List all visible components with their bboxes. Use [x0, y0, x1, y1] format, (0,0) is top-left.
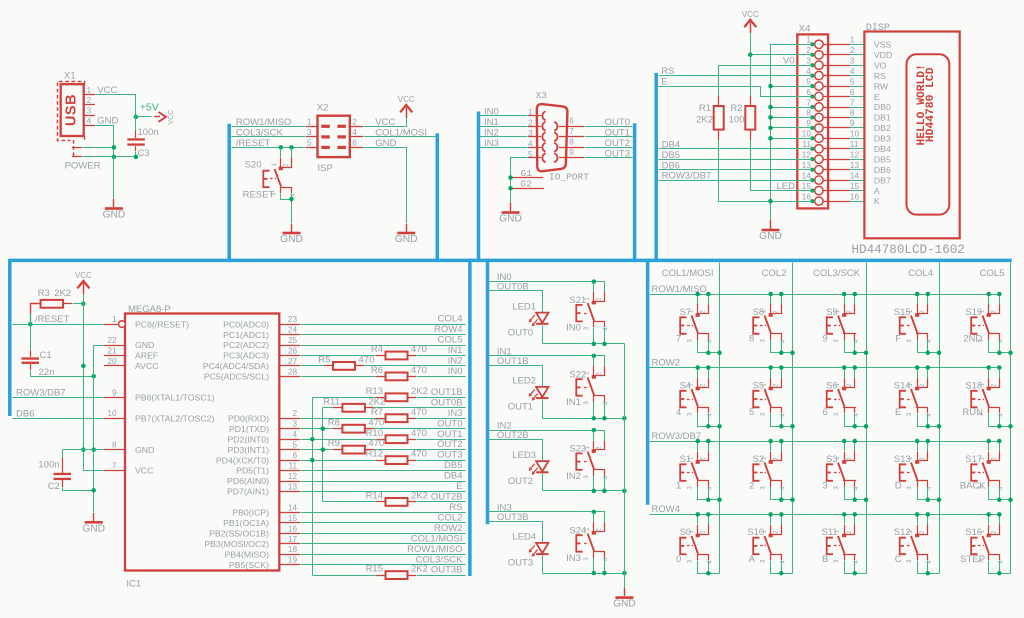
pin 1 IC1: [104, 315, 189, 329]
svg-text:C: C: [895, 554, 902, 565]
svg-text:470: 470: [368, 417, 384, 428]
svg-text:5: 5: [806, 77, 811, 86]
pushbutton S15 key F: [894, 292, 941, 355]
svg-text:6: 6: [352, 139, 357, 148]
svg-text:OUT1B: OUT1B: [431, 387, 463, 398]
svg-text:9: 9: [806, 119, 811, 128]
LED LED3: [529, 461, 549, 475]
LED LED2: [529, 387, 549, 401]
svg-text:STEP: STEP: [960, 554, 985, 565]
svg-text:DB3: DB3: [874, 134, 891, 144]
svg-text:RESET: RESET: [243, 189, 275, 200]
wire OUT2B: [489, 440, 543, 462]
wire COL1/MOSI: [364, 136, 436, 138]
svg-text:PB4(MISO): PB4(MISO): [225, 549, 270, 559]
svg-text:PB5(SCK): PB5(SCK): [229, 560, 269, 570]
svg-text:ROW1/MISO: ROW1/MISO: [407, 544, 462, 555]
junction led1 col: [622, 416, 627, 421]
wire net COL2 (row pin): [223, 512, 465, 528]
svg-text:IN3: IN3: [566, 553, 581, 564]
svg-text:4: 4: [292, 430, 297, 439]
wire LED1 cathode: [542, 326, 544, 344]
svg-text:S20: S20: [245, 159, 262, 170]
svg-text:COL5: COL5: [438, 335, 463, 346]
wire S23 bottom: [543, 490, 625, 492]
svg-text:15: 15: [850, 182, 860, 191]
junction IN2 pin1: [592, 428, 597, 433]
svg-text:IN0: IN0: [566, 323, 581, 334]
frame divider IO_PORT left: [477, 112, 481, 263]
junction G1: [508, 175, 513, 180]
svg-text:6: 6: [850, 88, 855, 97]
svg-text:PC2(ADC2): PC2(ADC2): [223, 340, 269, 350]
wire +5V to C3: [135, 117, 137, 132]
connector X2 ISP body: [318, 116, 350, 157]
svg-text:6: 6: [823, 407, 828, 418]
svg-text:R2: R2: [730, 103, 742, 114]
pushbutton S19 key 2ND: [963, 292, 1013, 355]
svg-text:1: 1: [87, 86, 92, 95]
svg-text:R11: R11: [323, 396, 340, 407]
wire net ROW4 (row pin): [223, 324, 465, 340]
wire S22 bottom: [543, 418, 625, 420]
svg-text:IN1: IN1: [484, 117, 499, 128]
svg-text:S24: S24: [569, 525, 586, 536]
svg-text:R10: R10: [366, 428, 383, 439]
junction led3 col: [622, 571, 627, 576]
frame border MCU right: [468, 259, 472, 576]
svg-text:VCC: VCC: [398, 95, 415, 104]
svg-text:PC1(ADC1): PC1(ADC1): [223, 330, 269, 340]
wire VCC from X1: [96, 95, 136, 117]
pushbutton S1 key 1: [676, 439, 722, 502]
svg-text:R1: R1: [699, 103, 711, 114]
svg-text:5: 5: [292, 441, 297, 450]
capacitor C1 22n: [22, 325, 94, 379]
svg-text:ROW1/MISO: ROW1/MISO: [236, 117, 291, 128]
svg-text:2K2: 2K2: [411, 386, 428, 397]
svg-text:11: 11: [802, 140, 811, 149]
wire OUT3 ioport: [585, 157, 633, 159]
wire VCC X2: [364, 116, 407, 127]
svg-text:/RESET: /RESET: [236, 138, 271, 149]
wire VCC rail mcu: [84, 294, 105, 471]
svg-text:S1: S1: [680, 454, 692, 465]
wire net COL1/MOSI (row pin): [204, 533, 465, 549]
junction K gnd: [768, 199, 773, 204]
svg-text:S2: S2: [753, 454, 765, 465]
svg-text:S0: S0: [680, 527, 692, 538]
connector X1 USB body: [61, 84, 84, 136]
svg-text:7: 7: [112, 462, 117, 471]
svg-text:COL2: COL2: [762, 268, 787, 279]
pin stubs X2 right: [350, 118, 363, 148]
svg-text:5: 5: [850, 77, 855, 86]
junction C1 gnd: [91, 374, 96, 379]
LED LED1: [529, 313, 549, 327]
svg-text:COL1/MOSI: COL1/MOSI: [375, 127, 427, 138]
svg-text:S3: S3: [826, 454, 838, 465]
svg-text:PB7(XTAL2/TOSC2): PB7(XTAL2/TOSC2): [135, 413, 214, 423]
pin numbers X3 left: [528, 108, 533, 159]
svg-text:AREF: AREF: [135, 351, 158, 361]
wire DB2 tie: [771, 127, 813, 129]
pushbutton S10 key A: [747, 512, 792, 575]
resistor R5 470 (row pin): [203, 355, 466, 372]
wire OUT1B: [489, 366, 543, 387]
wire VCC to VDD: [751, 33, 813, 55]
ground power: [113, 199, 115, 207]
wire OUT0B/OUT2B column: [322, 408, 324, 502]
svg-text:DB5: DB5: [444, 460, 462, 471]
svg-text:2: 2: [352, 118, 357, 127]
frame border LED left: [486, 259, 490, 525]
svg-text:OUT3: OUT3: [437, 450, 462, 461]
junction GND node: [112, 155, 117, 160]
wire row8 gnd: [63, 449, 105, 451]
wire net COL4 (row pin): [223, 314, 465, 330]
pushbutton S21: [576, 282, 609, 331]
svg-text:S22: S22: [569, 369, 586, 380]
wire ROW3/DB7 disp: [659, 180, 813, 182]
wire OUT3B: [489, 522, 543, 543]
frame divider power/ISP: [227, 124, 231, 262]
resistor R2 100: [729, 96, 756, 140]
svg-text:GND: GND: [135, 445, 154, 455]
svg-text:1: 1: [307, 118, 312, 127]
svg-text:ROW4: ROW4: [652, 504, 681, 515]
pins X4: [815, 40, 850, 205]
svg-text:6: 6: [569, 116, 574, 125]
svg-text:13: 13: [850, 161, 860, 170]
svg-text:100: 100: [729, 114, 745, 125]
wire VSS gnd: [771, 45, 813, 221]
wire DB5 disp: [659, 159, 813, 161]
junction IN3 pin1: [592, 510, 597, 515]
svg-text:R3: R3: [38, 288, 50, 299]
wire to power GND: [113, 157, 115, 200]
svg-text:22n: 22n: [39, 367, 55, 378]
pushbutton S17 key BACK: [960, 439, 1013, 502]
pin stubs X2 left: [306, 118, 318, 148]
pushbutton S13 key D: [894, 439, 941, 502]
pin 10 IC1: [104, 409, 214, 423]
svg-text:R7: R7: [371, 407, 383, 418]
svg-text:S8: S8: [753, 307, 765, 318]
svg-text:MEGA8-P: MEGA8-P: [128, 304, 171, 315]
capacitor C2 100n: [38, 450, 93, 493]
junction OUT0 tap: [321, 426, 326, 431]
svg-text:1: 1: [112, 315, 117, 324]
svg-text:2ND: 2ND: [963, 334, 982, 345]
pushbutton S5 key 5: [749, 365, 795, 428]
svg-text:5: 5: [749, 407, 754, 418]
svg-text:4: 4: [87, 117, 92, 126]
svg-text:4: 4: [352, 128, 357, 137]
wire IN3 led: [489, 512, 605, 523]
svg-text:100n: 100n: [38, 459, 59, 470]
svg-text:C3: C3: [138, 148, 150, 159]
svg-text:11: 11: [850, 140, 859, 149]
svg-text:R4: R4: [371, 344, 383, 355]
svg-text:13: 13: [288, 483, 298, 492]
pushbutton S20: [263, 148, 296, 197]
wire S20 bottom: [281, 194, 292, 224]
svg-text:S11: S11: [821, 527, 837, 538]
svg-text:OUT1: OUT1: [508, 402, 533, 413]
wire ROW3/DB7 mcu: [13, 397, 105, 399]
wire DB4 disp: [659, 148, 813, 150]
svg-text:DB5: DB5: [662, 150, 680, 161]
wire /RESET: [232, 147, 306, 149]
pin 20 IC1: [104, 357, 159, 371]
junction led3 p3: [592, 571, 597, 576]
wire column COL3/SCK: [866, 263, 868, 574]
wire V0: [719, 66, 813, 97]
svg-text:E: E: [456, 481, 462, 492]
svg-text:2: 2: [749, 481, 754, 492]
svg-text:19: 19: [288, 556, 298, 565]
svg-text:E: E: [874, 92, 880, 102]
svg-text:PC6(/RESET): PC6(/RESET): [135, 319, 189, 329]
junction S20 pin1: [279, 145, 284, 150]
wire /RESET mcu: [13, 324, 105, 326]
ground IO_PORT: [510, 203, 512, 211]
svg-text:ISP: ISP: [318, 163, 333, 174]
svg-text:8: 8: [806, 109, 811, 118]
wire led common: [624, 344, 626, 589]
svg-text:GND: GND: [97, 116, 118, 127]
svg-text:PB3(MOSI/OC2): PB3(MOSI/OC2): [204, 539, 269, 549]
resistor R15 2K2 (row pin): [313, 564, 466, 579]
display DISP body: [864, 32, 959, 239]
resistor R13 2K2 (row pin): [313, 386, 466, 401]
wire net E (row pin): [227, 481, 466, 497]
svg-text:OUT3B: OUT3B: [497, 512, 529, 523]
svg-text:PD4(XCK/T0): PD4(XCK/T0): [216, 455, 269, 465]
svg-text:VCC: VCC: [135, 466, 153, 476]
svg-text:OUT1: OUT1: [605, 127, 630, 138]
svg-text:DB2: DB2: [874, 123, 891, 133]
junction led0 p3: [592, 342, 597, 347]
supply VCC DISP: [744, 20, 756, 27]
wire R1 to K row: [719, 140, 813, 202]
pushbutton S2 key 2: [749, 439, 795, 502]
svg-text:IN3: IN3: [448, 408, 463, 419]
pin 9 IC1: [104, 388, 214, 402]
svg-text:15: 15: [288, 514, 298, 523]
pin 8 IC1: [104, 441, 154, 455]
wire OUT1B/OUT3B column: [312, 398, 314, 576]
wire IN2 ioport: [480, 136, 528, 138]
wire column COL5: [1010, 263, 1012, 574]
svg-text:GND: GND: [395, 234, 418, 245]
pushbutton S23: [576, 431, 609, 480]
junction +5V node: [134, 115, 139, 120]
pin 7 IC1: [104, 462, 153, 476]
pin names DISP: [874, 40, 892, 207]
wire OUT0B: [489, 291, 543, 313]
junction S20 gnd: [289, 197, 294, 202]
resistor R10 470 (row pin): [227, 428, 465, 445]
svg-text:PC0(ADC0): PC0(ADC0): [223, 319, 269, 329]
svg-text:S14: S14: [894, 380, 911, 391]
svg-text:OUT0B: OUT0B: [431, 397, 463, 408]
frame divider horizontal: [10, 259, 1012, 263]
svg-text:21: 21: [107, 347, 117, 356]
junction DB0: [768, 105, 773, 110]
resistor R11 2K2 (row pin): [323, 396, 466, 411]
svg-text:ROW3/DB7: ROW3/DB7: [16, 388, 66, 399]
svg-text:PD7(AIN1): PD7(AIN1): [227, 487, 269, 497]
resistor R14 2K2 (row pin): [323, 491, 466, 506]
svg-text:RS: RS: [874, 71, 886, 81]
svg-text:BACK: BACK: [960, 481, 987, 492]
svg-text:4: 4: [850, 67, 855, 76]
svg-text:VO: VO: [874, 60, 887, 70]
svg-text:R15: R15: [366, 564, 383, 575]
svg-text:S12: S12: [894, 527, 911, 538]
wire net RS (row pin): [232, 502, 465, 518]
wire DB0 tie: [771, 107, 813, 109]
svg-text:3: 3: [806, 57, 811, 66]
svg-text:3: 3: [87, 106, 92, 115]
svg-text:IN1: IN1: [448, 345, 463, 356]
svg-text:RW: RW: [874, 81, 889, 91]
svg-text:470: 470: [359, 355, 375, 366]
junction C3 bottom: [134, 155, 139, 160]
svg-text:7: 7: [806, 98, 811, 107]
junction IN0 pin1: [592, 279, 597, 284]
svg-text:OUT1: OUT1: [437, 429, 462, 440]
svg-text:3: 3: [823, 481, 828, 492]
svg-text:2K2: 2K2: [411, 564, 428, 575]
svg-text:VDD: VDD: [874, 50, 892, 60]
svg-text:16: 16: [850, 192, 860, 201]
svg-text:OUT3: OUT3: [508, 558, 533, 569]
resistor R8 470 (row pin): [229, 417, 466, 434]
svg-text:D: D: [895, 481, 902, 492]
wire DB6 disp: [659, 169, 813, 171]
svg-text:1: 1: [806, 36, 811, 45]
LED LED4: [529, 543, 549, 557]
svg-text:S17: S17: [965, 454, 982, 465]
pins X3 right: [554, 122, 584, 162]
junction AVCC: [81, 364, 86, 369]
svg-text:S5: S5: [753, 380, 765, 391]
junction led2 p4: [602, 489, 607, 494]
svg-text:HD44780LCD-1602: HD44780LCD-1602: [852, 243, 965, 257]
svg-text:ROW3/DB7: ROW3/DB7: [662, 171, 712, 182]
svg-text:7: 7: [676, 334, 681, 345]
svg-text:VCC: VCC: [168, 110, 175, 125]
svg-text:8: 8: [112, 441, 117, 450]
svg-text:S4: S4: [680, 380, 692, 391]
connector X3 IO_PORT body: [537, 104, 568, 171]
svg-text:470: 470: [411, 449, 427, 460]
wire row ROW4: [650, 514, 1000, 516]
svg-text:10: 10: [850, 130, 860, 139]
svg-text:PB2(SS/OC1B): PB2(SS/OC1B): [209, 529, 269, 539]
pushbutton S12 key C: [894, 512, 940, 575]
svg-text:COL1/MOSI: COL1/MOSI: [662, 268, 714, 279]
resistor R1 2K2: [696, 96, 724, 140]
svg-text:IN0: IN0: [484, 106, 499, 117]
svg-text:14: 14: [850, 171, 860, 180]
svg-text:HD44780 LCD: HD44780 LCD: [925, 67, 937, 142]
svg-text:PD3(INT1): PD3(INT1): [227, 445, 269, 455]
svg-text:R12: R12: [366, 449, 383, 460]
svg-text:USB: USB: [64, 94, 80, 126]
wires X4 to DISP: [850, 45, 865, 202]
svg-text:OUT2B: OUT2B: [431, 492, 463, 503]
svg-text:GND: GND: [280, 234, 303, 245]
svg-text:OUT3: OUT3: [605, 148, 630, 159]
svg-text:14: 14: [802, 171, 812, 180]
resistor R4 470 (row pin): [223, 344, 465, 361]
pushbutton S3 key 3: [823, 439, 869, 502]
svg-text:R14: R14: [366, 491, 383, 502]
svg-text:28: 28: [288, 367, 298, 376]
pin G1: [510, 168, 543, 179]
svg-text:16: 16: [288, 524, 298, 533]
svg-text:20: 20: [107, 357, 117, 366]
svg-text:DB4: DB4: [444, 471, 462, 482]
svg-text:GND: GND: [135, 340, 154, 350]
wire shield pin lower: [72, 156, 114, 158]
svg-text:ROW4: ROW4: [434, 324, 463, 335]
resistor R7 470 (row pin): [228, 407, 466, 424]
svg-text:2: 2: [850, 46, 855, 55]
junction R3 vcc: [81, 302, 86, 307]
ground led: [624, 588, 626, 596]
pushbutton S8 key 8: [749, 292, 795, 355]
svg-text:5: 5: [307, 139, 312, 148]
svg-text:22: 22: [107, 336, 117, 345]
resistor R3 2K2: [31, 288, 84, 325]
svg-text:IN3: IN3: [484, 138, 499, 149]
svg-text:OUT2: OUT2: [508, 476, 533, 487]
svg-text:OUT0: OUT0: [605, 117, 630, 128]
display LCD screen outline: [907, 54, 950, 214]
svg-text:3: 3: [292, 420, 297, 429]
svg-text:S18: S18: [965, 380, 982, 391]
junction led0 p4: [602, 342, 607, 347]
svg-text:COL4: COL4: [908, 268, 933, 279]
connector X1 USB shield (dashed): [58, 82, 85, 158]
junction gnd row8: [91, 447, 96, 452]
svg-text:S7: S7: [680, 307, 692, 318]
wire net DB4 (row pin): [227, 471, 466, 487]
wire S24 bottom: [543, 573, 625, 575]
svg-text:6: 6: [292, 451, 297, 460]
svg-text:DB6: DB6: [662, 160, 680, 171]
svg-text:B: B: [822, 554, 828, 565]
svg-text:3: 3: [850, 57, 855, 66]
svg-text:COL5: COL5: [980, 268, 1005, 279]
svg-text:IN0: IN0: [448, 366, 463, 377]
svg-text:GND: GND: [82, 523, 105, 534]
svg-text:IN2: IN2: [566, 471, 581, 482]
junction shield upper: [112, 145, 117, 150]
svg-text:F: F: [895, 334, 901, 345]
wire column COL4: [939, 263, 941, 574]
wire OUT2 ioport: [585, 147, 633, 149]
svg-text:OUT0: OUT0: [437, 418, 462, 429]
svg-text:COL3/SCK: COL3/SCK: [236, 127, 284, 138]
svg-text:9: 9: [112, 388, 117, 397]
svg-text:V0: V0: [783, 56, 795, 67]
